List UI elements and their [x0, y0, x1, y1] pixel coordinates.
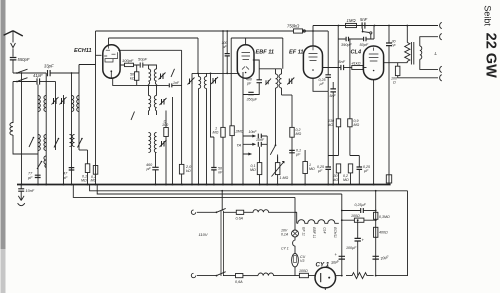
secondary wiring — [420, 37, 438, 70]
wire band row 2 — [13, 81, 36, 83]
svg-text:CL4: CL4 — [351, 50, 362, 56]
tube CU V3 urdox — [281, 237, 306, 276]
junction dots on ground bus — [21, 184, 375, 186]
resistor 0.3M PSU — [374, 212, 390, 219]
wire EF plate line — [323, 67, 341, 69]
top right coupling: 1M resistor — [346, 18, 357, 28]
speaker terminals — [440, 22, 442, 81]
resistor 0.1MOhm left — [81, 150, 90, 185]
wire long vertical IF feed — [191, 73, 193, 184]
switch S4 — [54, 139, 59, 148]
resistor 0.15MOhm right — [91, 166, 98, 183]
wire CL4 cathode — [373, 80, 375, 185]
antenna coil L1 — [10, 123, 13, 136]
tube EF11 — [289, 46, 323, 78]
wire — [13, 135, 38, 154]
svg-text:EBF 11: EBF 11 — [312, 227, 316, 238]
resistor 100 Ohm speaker — [391, 63, 438, 85]
PSU far edge — [376, 191, 408, 276]
capacitor 50nF AVC — [210, 73, 223, 185]
capacitor 550pF antenna — [10, 57, 30, 73]
capacitor 10nF to earth — [18, 185, 35, 194]
capacitor 5nF cathode — [330, 82, 337, 185]
PSU left vertical — [341, 194, 343, 276]
capacitor 400pF detector — [243, 60, 262, 95]
svg-text:1nF: 1nF — [173, 81, 180, 85]
capacitor 350pF — [247, 92, 258, 101]
svg-text:50pF: 50pF — [360, 43, 369, 47]
switch S3 — [29, 138, 34, 148]
svg-text:CY 1: CY 1 — [316, 262, 330, 269]
heater bracket wire A — [90, 185, 408, 191]
capacitor 100uF — [346, 220, 365, 275]
trimmer capacitor IF1b — [160, 98, 167, 105]
wire long vertical H osc grid — [95, 31, 97, 185]
resistor 1M bottom — [303, 150, 315, 185]
resistor 0.9M — [348, 119, 360, 156]
svg-text:pF: pF — [62, 176, 68, 180]
ground bus — [17, 184, 391, 186]
capacitor 77pF — [27, 172, 41, 180]
bracket to mains switch — [221, 191, 223, 211]
heater tube labels — [302, 227, 338, 238]
wire joining caps — [261, 136, 267, 144]
trimmer capacitor T2 — [60, 97, 67, 105]
output transformer secondary — [420, 46, 422, 59]
capacitor 0.25uF left — [317, 165, 331, 185]
svg-text:41kΩ: 41kΩ — [352, 61, 361, 65]
switch S6 — [37, 162, 42, 170]
svg-text:20µF: 20µF — [330, 259, 341, 265]
capacitor 50pF tone — [360, 37, 369, 47]
capacitor 5nF coupling — [339, 60, 352, 70]
capacitor 0.1uF — [289, 149, 301, 157]
wire vertical left column — [12, 82, 14, 124]
svg-text:CY 1: CY 1 — [281, 247, 289, 251]
wire CY1 to PSU — [336, 275, 342, 277]
svg-text:MΩ: MΩ — [296, 132, 302, 136]
capacitor 0.25uF PSU — [342, 203, 376, 213]
wire long vertical C — [45, 73, 47, 185]
wire tone line — [338, 26, 374, 40]
svg-text:10nF: 10nF — [249, 130, 258, 134]
TA input arrows — [237, 135, 257, 156]
IF3 wiring — [259, 38, 283, 95]
wire vertical D — [55, 82, 57, 151]
IF transformer 2 — [199, 77, 207, 89]
resistor 100 Ohm mains — [295, 269, 315, 278]
svg-text:pF: pF — [146, 167, 152, 171]
svg-text:MΩ: MΩ — [250, 168, 256, 172]
svg-text:1 MΩ: 1 MΩ — [280, 176, 289, 180]
svg-text:22 GW: 22 GW — [483, 33, 499, 78]
svg-text:MΩ: MΩ — [354, 123, 360, 127]
resistor 100 Ohm PSU — [342, 214, 376, 222]
capacitor 33pF — [44, 64, 79, 77]
tube CL4 — [351, 46, 384, 80]
wire band row 1 — [13, 72, 72, 74]
svg-text:5nF: 5nF — [339, 60, 346, 64]
svg-text:EF 11: EF 11 — [302, 227, 306, 236]
svg-text:MΩ: MΩ — [343, 178, 349, 182]
wire lamp to heater — [295, 212, 297, 216]
svg-text:10nF: 10nF — [26, 189, 35, 193]
resistor 1M — [213, 31, 226, 185]
zigzag resistor 100 Ohm — [346, 273, 374, 279]
svg-text:L: L — [435, 51, 438, 56]
svg-text:550pF: 550pF — [18, 57, 30, 62]
capacitor 50pF — [138, 57, 149, 68]
svg-text:nF: nF — [218, 170, 223, 174]
svg-text:kΩ: kΩ — [130, 76, 135, 80]
svg-text:µF: µF — [364, 169, 369, 173]
tube EBF11 — [237, 45, 274, 78]
svg-text:kΩ: kΩ — [186, 169, 191, 173]
wire cathode RC to bracket — [327, 91, 329, 155]
svg-text:33pF: 33pF — [44, 64, 54, 69]
top bus wire second level — [313, 25, 438, 27]
trimmer capacitor IF2b — [211, 77, 218, 84]
small resistor at bus — [386, 175, 391, 183]
wire ECH11 top to line2 — [108, 38, 110, 45]
capacitor 30nF — [386, 26, 396, 185]
top bus wire — [96, 30, 294, 32]
switch S8 — [171, 69, 175, 77]
PSU right vertical — [375, 191, 377, 276]
wire long vertical B — [37, 85, 39, 185]
svg-text:50pF: 50pF — [138, 57, 148, 62]
wire EF11 anode from bus — [312, 31, 314, 46]
IF transformer 3 — [276, 74, 282, 88]
trimmer capacitor T1 — [52, 97, 59, 105]
rectifier CY1 — [315, 262, 336, 291]
capacitor 0.25uF right — [357, 165, 371, 185]
PSU junction dots — [341, 210, 377, 277]
svg-text:µF: µF — [320, 82, 325, 86]
bracket wires — [328, 156, 359, 167]
wire detector out — [282, 94, 293, 96]
dial lamp — [281, 197, 299, 237]
svg-text:2MΩ: 2MΩ — [235, 130, 244, 134]
svg-text:nF: nF — [392, 43, 397, 47]
resistor 100 Ohm IF — [162, 111, 169, 185]
fuse 0.6A top — [236, 210, 252, 220]
svg-text:1MΩ: 1MΩ — [347, 18, 357, 23]
wire bridging coils to bus — [79, 149, 88, 151]
svg-text:MΩ: MΩ — [91, 179, 97, 183]
svg-text:110V: 110V — [199, 232, 208, 237]
svg-text:0,3MΩ: 0,3MΩ — [379, 215, 390, 219]
resistor 50kOhm — [130, 65, 139, 85]
svg-text:MΩ: MΩ — [81, 178, 87, 182]
wire EBF cathode — [242, 72, 244, 185]
earth symbol — [18, 191, 25, 206]
svg-text:Ω: Ω — [164, 119, 167, 123]
svg-text:Ω: Ω — [393, 80, 396, 84]
svg-text:750kΩ: 750kΩ — [287, 24, 300, 29]
trimmer capacitor det — [265, 79, 271, 86]
svg-text:V3: V3 — [300, 259, 304, 263]
resistor 0.2M — [290, 95, 302, 185]
wire vertical det out — [266, 136, 268, 185]
tone switch — [362, 29, 372, 39]
choke bottom — [258, 273, 295, 276]
oscillator coil pair — [149, 133, 157, 153]
wire ECH cathode — [113, 78, 169, 85]
antenna — [4, 31, 23, 57]
junction dots top — [222, 25, 408, 32]
wire long vertical E — [63, 95, 65, 185]
capacitor 460pF — [146, 153, 159, 185]
heater bracket wire C — [73, 185, 295, 198]
wire vertical G2 — [78, 65, 80, 151]
heater bracket wire B — [97, 185, 342, 195]
svg-text:0,25µF: 0,25µF — [355, 203, 367, 207]
svg-text:TA: TA — [237, 143, 242, 148]
svg-text:CL4: CL4 — [323, 227, 327, 233]
svg-text:+: + — [362, 238, 365, 243]
capacitor 20uF left — [330, 252, 345, 265]
svg-text:EBF 11: EBF 11 — [256, 50, 275, 56]
output transformer primary — [405, 26, 410, 63]
wire vertical G — [79, 65, 96, 74]
svg-text:ECH11: ECH11 — [333, 227, 337, 238]
capacitor 100pF grid EBF — [222, 30, 230, 74]
ECH11 box corner wire — [96, 54, 102, 56]
capacitor 5nF top — [360, 17, 368, 29]
svg-text:400Ω: 400Ω — [379, 231, 388, 235]
mains line bottom — [191, 272, 235, 278]
capacitor 10nF a — [249, 130, 262, 138]
wire vertical 172 — [172, 97, 174, 185]
capacitor 10nF b — [256, 138, 265, 147]
wire IF1 top connects — [149, 65, 157, 115]
svg-text:100Ω: 100Ω — [351, 214, 360, 218]
svg-text:20µF: 20µF — [379, 255, 390, 261]
svg-text:0,1A: 0,1A — [281, 233, 289, 237]
fuse 0.6A bottom — [235, 274, 258, 285]
wire 390/50 feed down — [338, 39, 350, 119]
svg-text:µF: µF — [296, 152, 301, 156]
svg-text:10nF: 10nF — [256, 138, 265, 142]
heater line bumps — [297, 217, 339, 224]
svg-text:kΩ: kΩ — [329, 123, 334, 127]
svg-text:100: 100 — [162, 123, 169, 127]
resistor 20k — [179, 164, 192, 184]
svg-text:pF: pF — [222, 45, 228, 49]
IF transformer 1 primary — [149, 69, 157, 85]
switch S5 — [78, 139, 83, 148]
svg-text:390pF: 390pF — [341, 43, 352, 47]
resistor 0.1M — [250, 147, 262, 185]
capacitor 20uF right — [373, 255, 390, 261]
resistor 130k — [328, 119, 341, 156]
IF2 wiring — [199, 73, 207, 184]
resistor 30k — [334, 164, 341, 185]
svg-text:MΩ: MΩ — [213, 130, 219, 134]
svg-text:kΩ: kΩ — [334, 178, 339, 182]
trimmer capacitor IF3 — [287, 78, 294, 85]
tuning coil bank lower row — [38, 135, 75, 168]
switch S7 — [131, 112, 135, 121]
resistor 750k — [287, 24, 328, 34]
capacitor 47pF — [62, 168, 74, 180]
scan left edge strip — [1, 0, 6, 293]
svg-text:pF: pF — [246, 81, 252, 85]
tuning coil bank upper row — [38, 96, 79, 112]
svg-text:41pF: 41pF — [33, 73, 43, 78]
switch TA — [270, 92, 277, 163]
svg-text:pF: pF — [27, 176, 33, 180]
svg-text:0,6A: 0,6A — [235, 280, 243, 284]
svg-text:5nF: 5nF — [330, 94, 337, 98]
svg-text:100µF: 100µF — [346, 246, 357, 250]
title Seibt 22 GW — [482, 5, 498, 78]
top line 2 — [109, 38, 283, 126]
svg-text:Seibt: Seibt — [482, 5, 492, 26]
resistor 2M — [230, 126, 244, 185]
mains cable — [221, 211, 223, 276]
trimmer capacitor IF2a — [188, 78, 195, 85]
wire EBF grid line — [192, 73, 239, 75]
choke top — [251, 210, 297, 213]
svg-text:µF: µF — [318, 169, 323, 173]
mains line top — [191, 208, 236, 214]
capacitor 390pF — [341, 37, 352, 47]
resistor 100pF coupling — [120, 58, 140, 67]
wire EBF top — [245, 38, 247, 45]
resistor 400 Ohm PSU — [374, 227, 388, 237]
potentiometer 1M — [272, 155, 289, 185]
capacitor 0.25uF EF — [319, 31, 332, 91]
capacitor 1nF — [169, 81, 181, 88]
svg-text:MΩ: MΩ — [309, 167, 315, 171]
svg-text:350µF: 350µF — [247, 98, 258, 102]
svg-text:EF 11: EF 11 — [289, 50, 304, 56]
wire CL4 anode — [384, 62, 408, 64]
capacitor 41pF — [33, 73, 56, 85]
switch S2 — [18, 78, 28, 81]
IF transformer 1 secondary — [149, 96, 157, 112]
transformer core — [411, 42, 413, 65]
trimmer capacitor osc — [160, 140, 167, 147]
svg-text:0,6A: 0,6A — [236, 217, 244, 221]
trimmer capacitor IF1a — [159, 73, 166, 80]
svg-text:100Ω: 100Ω — [299, 269, 308, 273]
svg-text:+: + — [335, 252, 338, 257]
wire EF11 cathode — [313, 78, 328, 91]
tube ECH11 — [74, 45, 120, 78]
svg-text:ECH11: ECH11 — [74, 48, 92, 54]
switch S1 — [18, 69, 28, 72]
resistor 0.2M — [343, 164, 353, 185]
wire long vertical A — [21, 73, 23, 185]
wire ECH anode — [118, 50, 181, 164]
svg-text:5nF: 5nF — [360, 17, 368, 22]
wire long vertical F — [71, 73, 73, 185]
resistor 41k grid CL4 — [352, 61, 367, 69]
svg-text:100pF: 100pF — [122, 58, 134, 63]
